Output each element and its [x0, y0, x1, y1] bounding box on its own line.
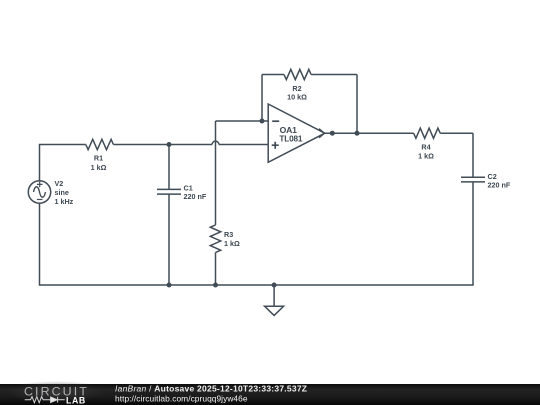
label R3 value: [224, 230, 240, 248]
wire hop over R3 branch: [212, 141, 219, 144]
footer url text: [115, 393, 248, 403]
voltage source V2: [28, 181, 50, 203]
wire: ground stub: [273, 285, 275, 306]
wire: C2 top lead: [472, 133, 474, 177]
node: inverting input / feedback junction: [260, 119, 265, 124]
svg-text:1 kΩ: 1 kΩ: [224, 239, 240, 248]
wire: C2 bottom lead: [472, 182, 474, 285]
svg-text:R1: R1: [94, 154, 103, 163]
op-amp OA1: [268, 104, 325, 162]
node: R1/C1 junction: [167, 142, 172, 147]
node: op-amp output junction: [330, 131, 335, 136]
capacitor C2: [461, 177, 485, 182]
wire: input rail from R1 to hop: [113, 144, 212, 146]
node: feedback / output junction: [355, 131, 360, 136]
wire: feedback top right segment: [311, 74, 357, 76]
logo CIRCUIT wordmark: [24, 384, 89, 398]
svg-text:C2: C2: [488, 172, 497, 181]
svg-text:R3: R3: [224, 230, 233, 239]
wire: inverting input rail: [216, 120, 269, 122]
wire: input rail from hop to op-amp + input: [219, 144, 268, 146]
svg-text:10 kΩ: 10 kΩ: [287, 92, 307, 101]
svg-text:1 kHz: 1 kHz: [55, 197, 74, 206]
resistor R2: [284, 69, 311, 79]
wire: R3 top lead: [215, 121, 217, 225]
svg-text:220 nF: 220 nF: [488, 181, 511, 190]
label C2 value: [488, 172, 511, 190]
svg-text:1 kΩ: 1 kΩ: [418, 151, 434, 160]
wire: feedback left vertical: [261, 75, 263, 122]
wire: V2 top lead up to input rail: [39, 145, 41, 182]
svg-text:sine: sine: [55, 188, 69, 197]
svg-text:V2: V2: [55, 179, 64, 188]
wire: output segment: [325, 132, 414, 134]
wire: C1 top lead: [168, 145, 170, 190]
logo LAB wordmark: [66, 395, 86, 405]
svg-text:R4: R4: [421, 143, 430, 152]
svg-text:IanBran / Autosave 2025-12-10T: IanBran / Autosave 2025-12-10T23:33:37.5…: [115, 384, 307, 394]
footer title text: [115, 384, 307, 394]
ground symbol: [265, 306, 284, 315]
node: R3 ground junction: [213, 283, 218, 288]
resistor R4: [414, 128, 441, 138]
wire: feedback right vertical: [356, 75, 358, 134]
capacitor C1: [157, 189, 181, 194]
label R4 value: [418, 143, 434, 161]
label OA1 designator: [279, 125, 303, 144]
svg-text:220 nF: 220 nF: [184, 192, 207, 201]
svg-text:OA1: OA1: [280, 125, 298, 135]
footer bar: [0, 381, 540, 405]
wire: ground rail: [39, 284, 474, 286]
label R1 value: [91, 154, 107, 172]
svg-text:1 kΩ: 1 kΩ: [91, 163, 107, 172]
svg-text:LAB: LAB: [66, 395, 86, 405]
wire: R3 bottom lead: [215, 253, 217, 286]
logo resistor-diode glyph: [25, 397, 65, 403]
wire: feedback top left segment: [262, 74, 284, 76]
resistor R3: [210, 225, 220, 253]
wire: C1 bottom lead: [168, 194, 170, 285]
wire: output rail from R4 to corner: [440, 132, 473, 134]
svg-text:TL081: TL081: [279, 135, 303, 144]
wire: V2 bottom lead down to ground rail: [39, 203, 41, 285]
label V2 value: [55, 179, 74, 206]
label C1 value: [184, 184, 207, 201]
svg-text:http://circuitlab.com/cpruqq9j: http://circuitlab.com/cpruqq9jyw46e: [115, 393, 248, 403]
wire: input rail left segment: [39, 144, 86, 146]
node: ground junction: [272, 283, 277, 288]
resistor R1: [86, 139, 114, 149]
label R2 value: [287, 84, 307, 101]
node: C1 ground junction: [167, 283, 172, 288]
